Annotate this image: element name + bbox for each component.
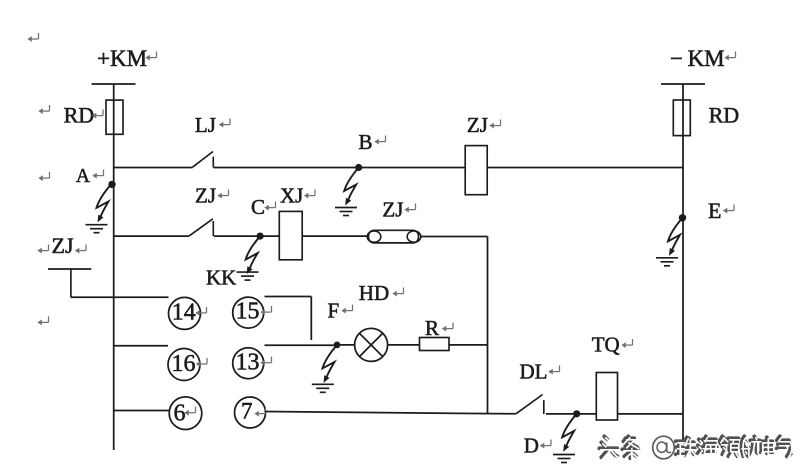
terminal circle 15	[233, 297, 264, 328]
svg-text:ZJ: ZJ	[195, 184, 216, 208]
paragraph mark after C	[264, 202, 275, 211]
wire node D to coil TQ	[577, 413, 597, 415]
svg-text:LJ: LJ	[195, 113, 216, 137]
time-delay element ZJ (sausage)	[367, 230, 421, 243]
svg-text:ZJ: ZJ	[467, 113, 488, 137]
-KM bus terminal bar	[661, 83, 705, 85]
relay coil ZJ	[465, 146, 487, 195]
lamp HD	[355, 328, 388, 361]
node F	[334, 342, 341, 349]
svg-text:TQ: TQ	[592, 333, 620, 357]
node E	[679, 214, 686, 221]
svg-text:D: D	[524, 434, 539, 458]
wire rung1: node B to relay coil ZJ	[359, 167, 466, 169]
svg-text:ZJ: ZJ	[382, 198, 403, 222]
paragraph mark after RD left	[92, 110, 103, 119]
svg-text:DL: DL	[520, 360, 548, 384]
contact LJ	[193, 152, 214, 168]
svg-text:B: B	[359, 130, 373, 154]
paragraph mark after LJ	[219, 119, 230, 128]
wire row3 left: bus to terminal 6	[114, 410, 170, 412]
svg-text:R: R	[425, 316, 439, 340]
svg-text:HD: HD	[359, 281, 389, 305]
probe arrow KK	[246, 236, 261, 274]
node A	[108, 181, 115, 188]
wire row1 right: terminal 15 to corner	[265, 296, 312, 298]
paragraph mark after ZJ coil	[489, 120, 500, 129]
node D	[573, 410, 580, 417]
paragraph mark after -KM	[724, 52, 735, 61]
paragraph mark after HD	[392, 288, 403, 297]
contact ZJ left margin (T structure)	[48, 269, 91, 297]
wire row2 right: terminal 13 to node F	[265, 344, 338, 346]
watermark @ glyph	[653, 436, 675, 459]
paragraph mark after D	[540, 440, 551, 449]
probe arrow B	[344, 168, 359, 206]
node B	[355, 164, 362, 171]
svg-text:15: 15	[236, 299, 260, 325]
coil TQ	[596, 373, 617, 421]
+KM bus wire	[113, 84, 115, 450]
probe arrow E	[668, 218, 683, 256]
svg-text:6: 6	[174, 401, 186, 427]
terminal circle 6	[169, 397, 202, 430]
wire rung2: contact ZJ to node C	[214, 235, 279, 237]
wire contact DL to node D	[546, 413, 577, 415]
wire resistor R to vertical	[449, 344, 488, 346]
svg-text:13: 13	[236, 349, 260, 375]
relay coil XJ	[279, 211, 302, 259]
margin paragraph marks	[27, 33, 38, 42]
paragraph mark after DL	[548, 366, 559, 375]
svg-text:F: F	[328, 299, 340, 323]
+KM bus terminal bar	[92, 83, 136, 85]
ground D	[553, 455, 575, 463]
svg-text:KK: KK	[206, 266, 236, 290]
wire rung2: +KM bus to contact ZJ	[114, 235, 190, 237]
paragraph mark after F	[341, 305, 352, 314]
wire row1: vertical stub down	[310, 297, 312, 341]
ground A	[86, 225, 108, 233]
wire row1 left: T structure across bus to terminal 14	[71, 296, 169, 298]
resistor R	[420, 338, 450, 351]
wire rung1: +KM bus to contact LJ	[114, 167, 193, 169]
svg-text:C: C	[251, 195, 265, 219]
node C	[257, 233, 264, 240]
wire row3: terminal 7 to contact DL	[265, 412, 517, 414]
svg-text:+KM: +KM	[97, 46, 147, 71]
svg-text:XJ: XJ	[280, 184, 303, 208]
fuse RD left	[106, 100, 123, 134]
wire rung2: sausage to corner	[420, 236, 488, 238]
wire rung1: contact LJ to node B	[214, 167, 359, 169]
paragraph mark after B	[374, 136, 385, 145]
-KM bus wire	[682, 84, 684, 441]
wire coil TQ to -KM bus	[618, 413, 684, 415]
paragraph mark after TQ	[621, 339, 632, 348]
svg-text:RD: RD	[64, 102, 95, 127]
paragraph mark after left ZJ	[75, 245, 86, 254]
paragraph mark after ZJ sausage	[404, 204, 415, 213]
svg-text:E: E	[708, 198, 721, 223]
paragraph mark before left ZJ	[37, 245, 48, 254]
contact ZJ	[189, 219, 213, 236]
svg-text:14: 14	[172, 300, 196, 326]
wire row2 left: bus to terminal 16	[114, 345, 168, 347]
terminal circle 7	[235, 397, 266, 428]
paragraph mark after A	[92, 170, 103, 179]
probe arrow F	[323, 345, 338, 383]
svg-text:7: 7	[241, 399, 253, 424]
ground E	[656, 258, 678, 266]
paragraph mark after ZJ contact	[217, 190, 228, 199]
wire rung2: coil XJ to time-delay element ZJ	[302, 235, 367, 237]
svg-text:16: 16	[172, 351, 196, 377]
white pass	[601, 438, 793, 460]
probe arrow D	[562, 414, 577, 452]
contact DL	[516, 395, 544, 415]
svg-text:ZJ: ZJ	[52, 233, 74, 258]
paragraph mark after E	[723, 205, 734, 214]
wire node F to lamp HD	[337, 344, 355, 346]
shadow pass	[599, 436, 791, 458]
probe arrow A	[97, 184, 112, 222]
ground B	[335, 208, 357, 216]
paragraph mark after XJ	[304, 190, 315, 199]
svg-text:RD: RD	[709, 102, 740, 127]
ground KK	[237, 272, 259, 280]
ground F	[312, 384, 334, 392]
terminal circle 13	[233, 348, 264, 379]
svg-text:A: A	[76, 166, 90, 187]
paragraph mark after R	[442, 323, 453, 332]
fuse RD right	[673, 100, 690, 136]
terminal circle 16	[168, 349, 200, 381]
paragraph mark after +KM	[145, 52, 156, 61]
wire rung1: coil ZJ to -KM bus	[487, 167, 683, 169]
terminal circle 14	[169, 297, 201, 329]
wire lamp to resistor R	[388, 344, 420, 346]
wire: vertical drop from rung2 to rung3	[487, 237, 489, 414]
svg-text:− KM: − KM	[670, 46, 725, 71]
